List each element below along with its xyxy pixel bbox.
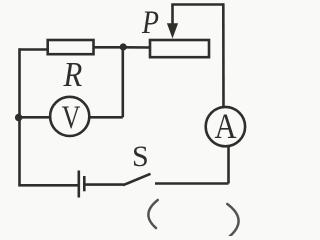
wire node B to voltmeter — [19, 116, 51, 119]
switch S blade — [123, 174, 151, 185]
svg-text:V: V — [62, 100, 81, 136]
wire bottom-right horizontal — [155, 182, 229, 185]
voltmeter V circle — [50, 97, 89, 136]
wire battery to bottom-left corner — [18, 184, 77, 187]
wire top-left horizontal — [20, 48, 48, 51]
wire left vertical — [18, 48, 21, 185]
wire right vertical to ammeter — [222, 3, 225, 107]
node A junction dot — [120, 43, 127, 50]
wire switch to battery — [86, 183, 124, 186]
svg-text:P: P — [141, 4, 159, 41]
answer parenthesis right — [227, 204, 238, 237]
svg-text:S: S — [132, 140, 149, 173]
svg-text:R: R — [63, 56, 83, 94]
battery short plate — [83, 176, 86, 191]
wire ammeter to bottom corner — [227, 146, 230, 184]
wire voltmeter right to riser — [89, 116, 123, 119]
wire node A to rheostat — [123, 46, 150, 49]
resistor R — [48, 40, 94, 54]
battery long plate — [78, 171, 81, 198]
node B junction dot — [15, 114, 22, 121]
ammeter A circle — [206, 107, 245, 146]
svg-text:A: A — [215, 107, 237, 147]
answer parenthesis left — [148, 200, 157, 228]
wire resistor to node A — [94, 46, 124, 49]
rheostat P body — [150, 40, 209, 57]
wire top-right horizontal — [171, 3, 223, 6]
wire riser to node A — [122, 47, 125, 117]
rheostat wiper arrow — [167, 5, 178, 39]
